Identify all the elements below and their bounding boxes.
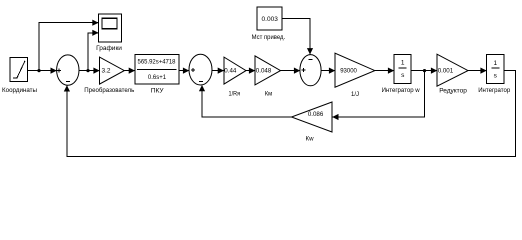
wire : gain 93000 to integrator 1 <box>375 68 394 74</box>
wire : sum S2 to gain 0.44 <box>212 68 224 74</box>
wire : ПКУ to sum S2 <box>179 68 189 74</box>
wire : gain 0.048 to sum S3 <box>281 68 301 74</box>
svg-text:1: 1 <box>401 60 405 67</box>
sum S1 <box>57 55 79 85</box>
wire : gain Кw output to sum S2 bottom <box>199 85 292 117</box>
transfer function block ПКУ <box>135 55 179 95</box>
wire : Редуктор to integrator 2 <box>468 68 487 74</box>
svg-text:565.92s+4718: 565.92s+4718 <box>138 60 177 66</box>
wire : Координаты output to sum S1 <box>28 68 57 74</box>
svg-text:Преобразователь: Преобразователь <box>84 86 135 94</box>
svg-text:0.001: 0.001 <box>438 67 454 74</box>
wire : sum S1 output to gain 3.2 <box>79 68 100 74</box>
wire : branch down into gain Кw <box>332 71 424 121</box>
wire : Мст привед. constant to sum S3 top <box>282 19 313 55</box>
svg-text:Интегратор: Интегратор <box>478 87 510 94</box>
gain 3.2 Преобразователь <box>84 57 135 94</box>
constant block Мст привед. 0.003 <box>252 7 286 41</box>
svg-text:93000: 93000 <box>340 69 357 75</box>
integrator block 1 Интегратор w <box>382 54 420 94</box>
wire : gain 0.44 to gain 0.048 <box>246 68 255 74</box>
wire : sum S3 to gain 93000 <box>321 68 335 74</box>
gain 0.001 Редуктор <box>437 54 468 94</box>
gain 93000 1/J <box>335 53 375 98</box>
svg-text:Кw: Кw <box>306 136 314 143</box>
svg-text:3.2: 3.2 <box>102 68 111 75</box>
svg-text:Редуктор: Редуктор <box>439 88 467 95</box>
node : junction to Кw feedback <box>423 69 426 72</box>
sum S3 <box>300 55 321 86</box>
svg-text:Интегратор w: Интегратор w <box>382 87 420 94</box>
svg-text:0.086: 0.086 <box>308 111 324 118</box>
gain 0.048 Км <box>255 56 281 98</box>
scope block Графики <box>96 14 122 52</box>
svg-text:0.44: 0.44 <box>224 67 237 74</box>
svg-text:1: 1 <box>493 60 497 67</box>
wire : branch B up to scope input 2 <box>88 30 99 71</box>
gain 0.086 Кw feedback <box>292 102 333 143</box>
sum S2 <box>189 54 212 85</box>
node : branch A junction <box>37 69 40 72</box>
svg-text:Мст привед.: Мст привед. <box>252 34 286 41</box>
wire : gain 3.2 to ПКУ <box>124 68 135 74</box>
svg-text:Км: Км <box>265 91 273 98</box>
integrator block 2 Интегратор <box>478 55 510 94</box>
svg-text:0.6s+1: 0.6s+1 <box>148 75 167 81</box>
svg-text:Координаты: Координаты <box>2 87 37 94</box>
source block Координаты <box>2 58 37 95</box>
wire : outer feedback loop integrator 2 to sum S1 <box>64 71 516 157</box>
svg-text:0.003: 0.003 <box>262 16 279 23</box>
svg-text:0.048: 0.048 <box>256 67 272 74</box>
gain 0.44 1/Rя <box>224 57 246 97</box>
svg-text:1/J: 1/J <box>351 91 359 98</box>
wire : integrator 1 to Редуктор <box>411 68 437 74</box>
svg-text:ПКУ: ПКУ <box>151 88 165 95</box>
svg-text:1/Rя: 1/Rя <box>229 91 241 98</box>
node : branch B junction <box>86 69 89 72</box>
svg-text:Графики: Графики <box>96 45 122 52</box>
wire : branch A up to scope input 1 <box>39 20 99 71</box>
